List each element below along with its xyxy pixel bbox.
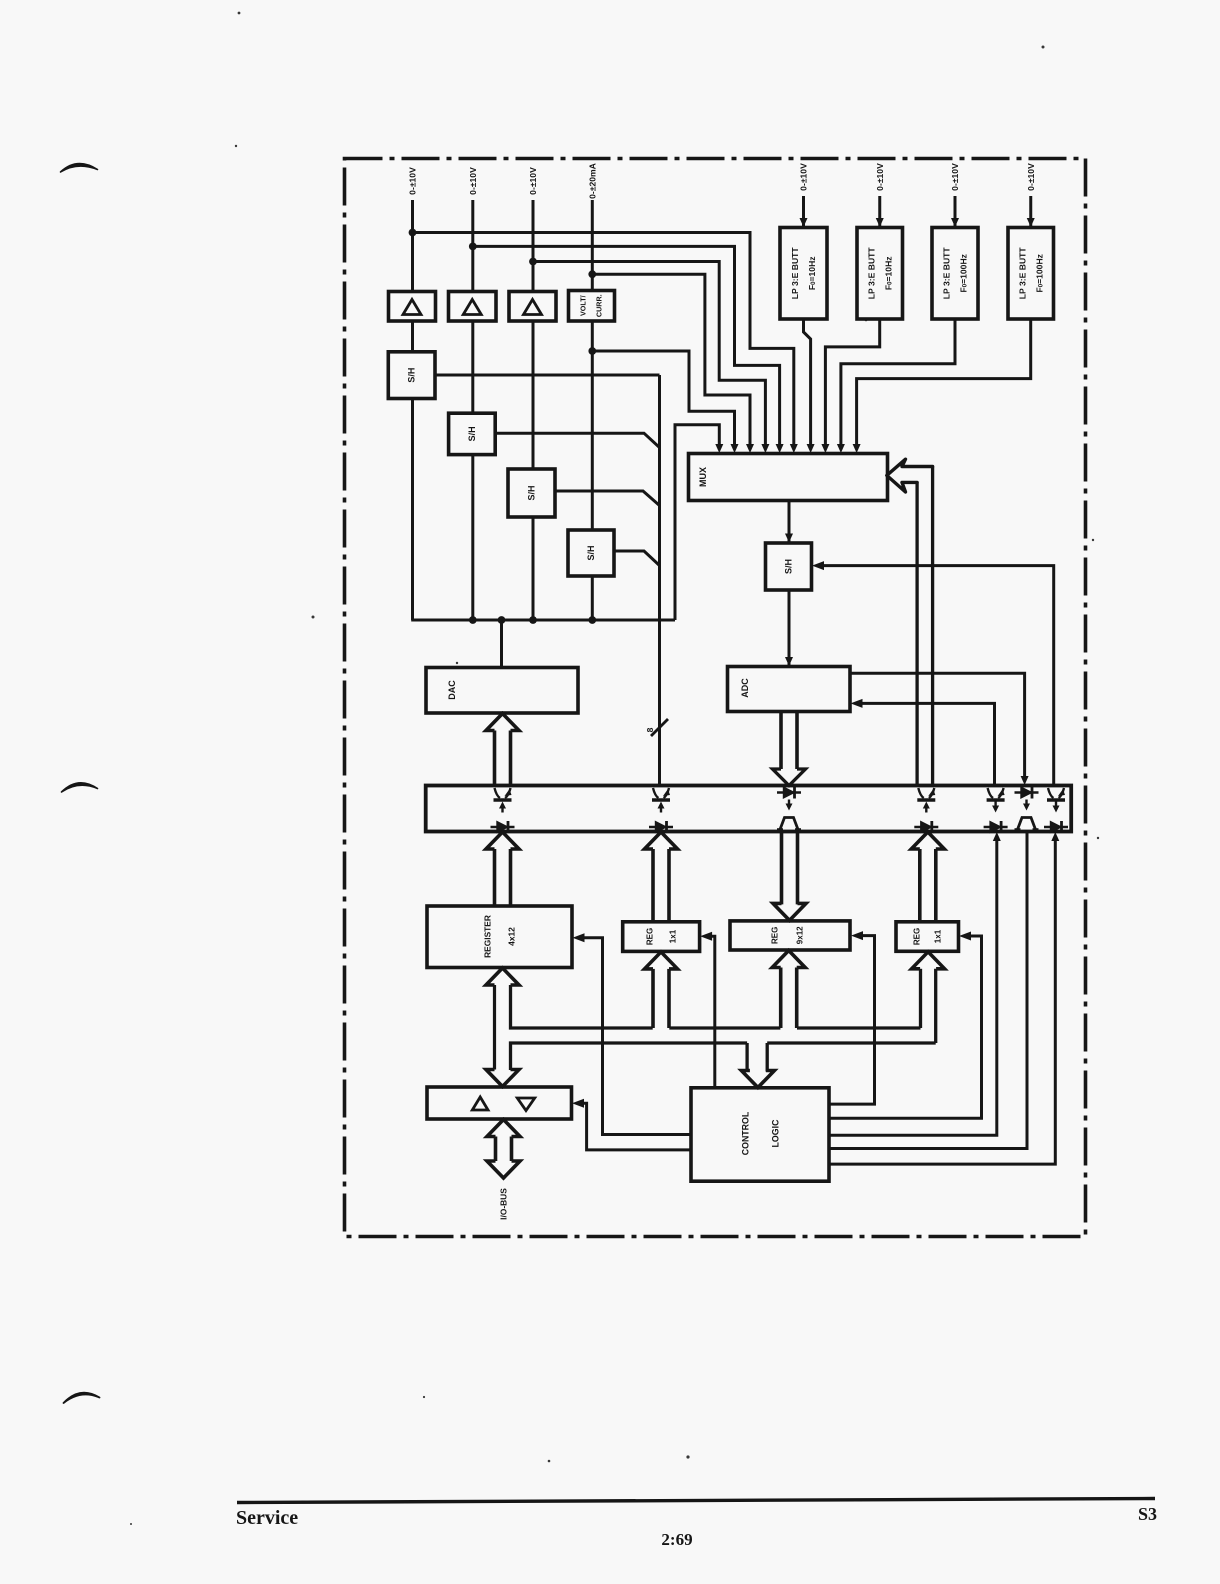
hollow arrow head up at transceiver bottom: [487, 1120, 520, 1137]
hollow arrow head into DAC: [486, 714, 519, 731]
wire A3 to S/H3: [532, 321, 535, 469]
wire tap 2 to MUX: [473, 246, 780, 449]
hollow arrow shaft REG1 to channel: [651, 969, 655, 1028]
wire REGISTER strobe from control logic: [583, 938, 691, 1135]
switch glyph buffer col SHc: [1044, 821, 1068, 833]
bus width slash 8: [651, 719, 668, 736]
wire S/H5 control to bar: [823, 566, 1054, 786]
wire S/H4 down to rail: [591, 576, 594, 620]
svg-text:VOLT/: VOLT/: [579, 295, 588, 316]
register REG 1x1 left: [623, 922, 700, 952]
mux select hollow shaft: [931, 467, 934, 786]
svg-text:CURR.: CURR.: [595, 294, 604, 317]
arrowhead ADC line into bar: [1021, 776, 1029, 785]
junction rail: [498, 616, 506, 624]
wire REG2 strobe from control logic: [829, 936, 982, 1118]
arrowhead up into bar col7: [1051, 832, 1059, 841]
arrowhead REGISTER strobe: [573, 933, 585, 942]
wire control to bar col6: [829, 832, 1027, 1149]
wire S/H2 output diagonal: [495, 433, 659, 447]
wire input column 4 upper: [591, 200, 594, 292]
hollow arrow shaft REG2 to channel: [919, 969, 922, 1028]
junction rail: [469, 616, 477, 624]
svg-text:F0=10Hz: F0=10Hz: [883, 256, 893, 290]
switch glyph buffer col SEL: [914, 821, 938, 833]
svg-text:REG: REG: [646, 928, 655, 945]
wire S/H3 down to rail: [532, 517, 535, 620]
wire tap 4 to MUX: [592, 274, 750, 449]
register REGISTER 4x12: [427, 906, 572, 968]
switch glyph arrow col DAC: [501, 808, 503, 813]
wire input column 1 upper: [411, 200, 414, 292]
svg-text:CONTROL: CONTROL: [741, 1111, 751, 1155]
low-pass filter LP2: [857, 228, 903, 320]
switch glyph arrow col ADCc: [994, 802, 996, 807]
svg-text:0-±10V: 0-±10V: [528, 167, 538, 195]
hollow arrow head ADC into bar: [773, 769, 806, 786]
switch glyph funnel col REG1: [652, 788, 670, 800]
wire transceiver enable from control logic: [583, 1103, 692, 1150]
dac DAC: [426, 668, 578, 714]
sample-hold S/H5: [766, 543, 812, 590]
svg-text:4x12: 4x12: [507, 927, 517, 946]
low-pass filter LP1: [780, 228, 827, 320]
wire S/H1 output: [435, 374, 660, 377]
switch glyph buffer col ADCc: [984, 821, 1008, 833]
wire LP2 input: [878, 196, 881, 227]
binder mark arc 2: [62, 783, 98, 792]
arrowhead LP2 input: [876, 218, 884, 227]
wire rail riser to MUX: [675, 425, 719, 620]
bus transceiver: [427, 1087, 572, 1119]
switch glyph arrow col ADCs: [1025, 800, 1027, 805]
register REG 9x12: [730, 921, 850, 950]
transfer bar switch matrix: [426, 786, 1071, 832]
arrowhead MUX input 8: [821, 444, 829, 453]
svg-text:MUX: MUX: [698, 467, 708, 487]
volt/curr converter U4: [569, 291, 615, 322]
arrowhead MUX input 6: [790, 444, 798, 453]
wire LP1 to MUX: [804, 319, 811, 450]
hollow arrow head down at transceiver top: [486, 1070, 519, 1087]
amplifier A1: [389, 292, 436, 322]
multiplexer MUX: [689, 454, 888, 501]
wire S/H4 output diagonal: [614, 551, 660, 566]
hollow arrow head up at REG9 bottom: [772, 951, 805, 968]
junction rail: [529, 616, 537, 624]
switch glyph arrow col ADC: [788, 800, 790, 805]
sample-hold S/H4: [568, 530, 614, 576]
wire U4 to S/H4: [591, 321, 594, 530]
wire LP4 to MUX: [857, 319, 1031, 450]
svg-text:LP 3:E BUTT: LP 3:E BUTT: [790, 247, 800, 300]
adc ADC: [728, 667, 851, 712]
arrowhead transceiver enable: [572, 1099, 584, 1108]
hollow arrow head REG1 to bar: [645, 832, 678, 849]
wire LP2 to MUX: [825, 319, 879, 450]
amplifier A2: [449, 292, 497, 322]
arrowhead LP1 input: [800, 218, 808, 227]
svg-text:ADC: ADC: [740, 678, 750, 698]
hollow arrow head REGISTER to bar: [486, 832, 519, 849]
wire S/H1 down to rail: [411, 399, 414, 621]
wire REG1 strobe from control logic: [711, 936, 715, 1088]
amplifier A3: [509, 292, 556, 322]
svg-text:S/H: S/H: [467, 426, 477, 441]
hollow channel bottom edge: [511, 1043, 936, 1070]
arrowhead REG1 strobe: [700, 932, 712, 941]
svg-text:LOGIC: LOGIC: [771, 1119, 781, 1148]
switch glyph contact col ADC: [780, 818, 798, 830]
switch glyph funnel col SHc: [1047, 788, 1065, 800]
arrowhead MUX input 4: [761, 444, 769, 453]
wire ADC status to bar: [850, 673, 1025, 777]
svg-text:0-±10V: 0-±10V: [799, 163, 809, 191]
wire LP4 input: [1029, 196, 1032, 227]
svg-text:9x12: 9x12: [796, 926, 805, 944]
svg-text:REG: REG: [771, 927, 780, 944]
hollow arrow shaft REGISTER to bar: [493, 849, 497, 906]
svg-text:S/H: S/H: [586, 545, 596, 560]
junction tap 3: [529, 258, 537, 266]
control logic: [691, 1088, 829, 1181]
arrowhead into ADC: [785, 657, 793, 666]
switch glyph buffer col DAC: [491, 821, 515, 833]
svg-text:0-±10V: 0-±10V: [875, 163, 885, 191]
arrowhead MUX input 2: [731, 444, 739, 453]
register REG 1x1 right: [896, 922, 959, 952]
hollow arrow head up at REGISTER bottom: [486, 968, 519, 985]
hollow arrow shaft bar to DAC: [493, 731, 497, 786]
hollow channel top edge: [511, 985, 921, 1028]
svg-text:S3: S3: [1138, 1504, 1157, 1524]
hollow arrow shaft REGISTER to transceiver: [493, 985, 496, 1070]
arrowhead REG2 strobe: [959, 932, 971, 941]
junction tap 4: [588, 270, 596, 278]
switch glyph funnel col ADCc: [987, 788, 1005, 800]
hollow arrow head up at REG1 bottom: [645, 952, 678, 969]
transceiver down triangle: [517, 1098, 534, 1111]
svg-text:LP 3:E BUTT: LP 3:E BUTT: [942, 247, 952, 300]
wire tap 1 to MUX: [413, 233, 794, 450]
wire merged S/H bus down to transfer bar: [658, 375, 661, 786]
junction rail: [588, 616, 596, 624]
switch glyph arrow col REG1: [660, 808, 662, 813]
switch glyph buffer col REG1: [649, 821, 673, 833]
switch glyph buffer col ADCs: [1015, 787, 1039, 799]
wire rail to DAC: [500, 620, 503, 668]
svg-text:0-±10V: 0-±10V: [408, 167, 418, 195]
wire S/H3 output diagonal: [555, 491, 660, 506]
wire LP3 input: [954, 196, 957, 227]
wire control to bar col7: [829, 841, 1055, 1165]
arrowhead MUX input 9: [837, 444, 845, 453]
arrowhead MUX input 10: [853, 444, 861, 453]
svg-text:S/H: S/H: [407, 368, 417, 383]
svg-text:REGISTER: REGISTER: [483, 915, 493, 958]
dash-dot diagram border: [345, 159, 1086, 1237]
transceiver up triangle: [472, 1097, 488, 1110]
mux select hollow arrow head: [887, 459, 933, 492]
wire bottom rail: [411, 619, 675, 622]
svg-text:8: 8: [645, 727, 655, 732]
wire S/H5 to ADC: [788, 590, 791, 666]
hollow arrow head up at REG2 bottom: [912, 952, 945, 969]
wire ADC control from bar: [861, 703, 995, 785]
wire S/H2 down to rail: [471, 455, 474, 620]
hollow arrow shaft REG2 to bar: [918, 849, 922, 922]
hollow arrow shaft REG1 to bar: [651, 849, 655, 922]
svg-text:1x1: 1x1: [669, 929, 678, 943]
wire A2 to S/H2: [471, 321, 474, 413]
arrowhead LP4 input: [1027, 218, 1035, 227]
binder mark arc 3: [64, 1393, 100, 1403]
wire tap 3 to MUX: [533, 262, 765, 450]
switch glyph arrow col SEL: [925, 808, 927, 813]
hollow arrow head into control logic: [741, 1071, 774, 1088]
wire REG9 strobe from control logic: [829, 936, 875, 1105]
low-pass filter LP3: [932, 228, 978, 320]
svg-text:0-±10V: 0-±10V: [1026, 163, 1036, 191]
wire LP3 to MUX: [841, 319, 955, 450]
arrowhead MUX input 5: [776, 444, 784, 453]
junction tap 2: [469, 243, 477, 251]
wire MUX to S/H5: [788, 501, 791, 543]
wire tap 4b to MUX: [592, 351, 734, 450]
wire LP1 input: [802, 196, 805, 227]
svg-text:REG: REG: [913, 928, 922, 945]
hollow arrow shaft bar to REG9: [780, 832, 784, 905]
svg-text:F0=10Hz: F0=10Hz: [807, 256, 817, 290]
svg-text:S/H: S/H: [784, 559, 794, 574]
svg-text:0-±10V: 0-±10V: [950, 163, 960, 191]
switch glyph funnel col DAC: [494, 788, 512, 800]
junction tap 1: [409, 229, 417, 237]
hollow arrow head down to I/O bus: [487, 1161, 520, 1178]
hollow arrow head bar into REG9: [773, 903, 806, 920]
switch glyph buffer col ADC: [777, 787, 801, 799]
arrowhead MUX input 3: [746, 444, 754, 453]
arrowhead MUX input 1: [715, 444, 723, 453]
svg-text:LP 3:E BUTT: LP 3:E BUTT: [866, 247, 876, 300]
svg-text:I/O-BUS: I/O-BUS: [499, 1188, 509, 1220]
junction tap 4b: [588, 347, 596, 355]
svg-text:0-±20mA: 0-±20mA: [587, 163, 597, 199]
wire input column 2 upper: [471, 200, 474, 292]
arrowhead REG9 strobe: [851, 931, 863, 940]
hollow arrow shaft transceiver to I/O bus: [494, 1137, 498, 1162]
arrowhead into ADC control: [851, 699, 863, 708]
svg-text:0-±10V: 0-±10V: [468, 167, 478, 195]
wire input column 3 upper: [532, 200, 535, 292]
arrowhead S/H5 control: [812, 561, 824, 570]
svg-text:DAC: DAC: [447, 680, 457, 700]
hollow arrow shaft REG9 to channel: [779, 968, 783, 1029]
svg-text:LP 3:E BUTT: LP 3:E BUTT: [1017, 247, 1027, 300]
arrowhead LP3 input: [951, 218, 959, 227]
sample-hold S/H3: [508, 469, 555, 517]
svg-text:Service: Service: [236, 1507, 298, 1529]
svg-text:S/H: S/H: [527, 485, 537, 500]
svg-text:2:69: 2:69: [661, 1530, 692, 1549]
svg-text:1x1: 1x1: [934, 929, 943, 943]
footer rule: [237, 1499, 1155, 1503]
arrowhead MUX input 7: [807, 444, 815, 453]
wire A1 to S/H1: [411, 321, 414, 352]
binder mark arc 1: [61, 164, 98, 172]
sample-hold S/H1: [388, 352, 435, 399]
hollow arrow head REG2 to bar: [911, 832, 944, 849]
wire control to bar col5: [829, 841, 997, 1136]
sample-hold S/H2: [449, 413, 496, 454]
arrowhead up into bar col5: [993, 832, 1001, 841]
switch glyph funnel col SEL: [917, 788, 935, 800]
switch glyph contact col ADCs: [1018, 818, 1036, 830]
hollow arrow shaft ADC to bar: [779, 712, 783, 770]
low-pass filter LP4: [1008, 228, 1054, 320]
hollow arrow shaft channel to control logic: [745, 1043, 748, 1072]
arrowhead into S/H5: [785, 534, 793, 543]
switch glyph arrow col SHc: [1055, 802, 1057, 807]
